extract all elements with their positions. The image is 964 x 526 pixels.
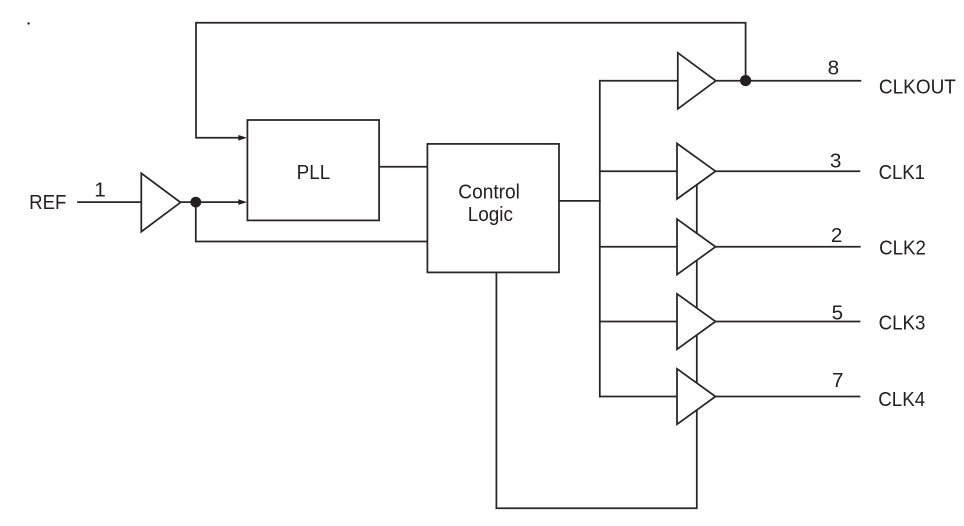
buffer U1 REF input buffer [141, 173, 180, 231]
wire: bus branch to CLK2 buffer [600, 246, 677, 248]
wire: CLK1 output line [716, 170, 860, 172]
buffer U5 CLK3 output buffer [677, 294, 716, 350]
wire: feedback from CLKOUT node across the top to PLL upper input [196, 23, 746, 138]
svg-text:CLK2: CLK2 [879, 236, 926, 259]
svg-text:3: 3 [830, 150, 842, 173]
wire: CLK3 output line [716, 321, 860, 323]
svg-text:7: 7 [832, 369, 844, 392]
block PLL [247, 120, 379, 220]
wire: CLK2 output line [716, 246, 860, 248]
wire: bus branch to CLK4 buffer [600, 396, 677, 398]
wire: PLL output to Control Logic [379, 166, 427, 168]
buffer U4 CLK2 output buffer [677, 219, 716, 275]
svg-text:Logic: Logic [468, 203, 513, 226]
buffer U3 CLK1 output buffer [677, 144, 716, 200]
arrowhead into PLL upper input [238, 135, 247, 141]
node B junction dot on CLKOUT line [740, 75, 751, 86]
buffer U2 CLKOUT output buffer [678, 53, 716, 109]
wire: bus branch to CLK1 buffer [600, 170, 677, 172]
wire: Control Logic output to distribution bus [559, 200, 600, 202]
block Control Logic [427, 144, 559, 273]
svg-text:CLKOUT: CLKOUT [879, 75, 956, 98]
svg-text:CLK1: CLK1 [879, 161, 925, 184]
svg-text:CLK3: CLK3 [879, 312, 926, 335]
wire: node A down and right to Control Logic left input [196, 202, 428, 241]
wire: CLK4 output line [716, 396, 860, 398]
wire: bus branch to CLK3 buffer [600, 321, 677, 323]
svg-text:Control: Control [458, 180, 520, 203]
svg-text:8: 8 [828, 56, 840, 79]
wire: vertical distribution bus [599, 81, 601, 397]
svg-text:PLL: PLL [297, 161, 331, 184]
svg-text:CLK4: CLK4 [878, 388, 925, 411]
wire: REF input line [78, 201, 141, 203]
svg-text:REF: REF [29, 191, 66, 214]
wire: bottom route from Control Logic down, right and up behind output buffers [496, 171, 696, 508]
wire: bus branch to CLKOUT buffer [600, 80, 678, 82]
wire: CLKOUT output line [716, 80, 861, 82]
arrowhead into PLL lower input [238, 199, 247, 205]
svg-text:1: 1 [94, 179, 106, 202]
svg-text:2: 2 [831, 224, 843, 247]
stray period mark top-left [27, 22, 29, 24]
buffer U6 CLK4 output buffer [677, 369, 716, 425]
svg-text:5: 5 [832, 301, 844, 324]
wire: REF buffer output to PLL lower input [181, 201, 244, 203]
node A junction dot after REF buffer [190, 197, 201, 208]
